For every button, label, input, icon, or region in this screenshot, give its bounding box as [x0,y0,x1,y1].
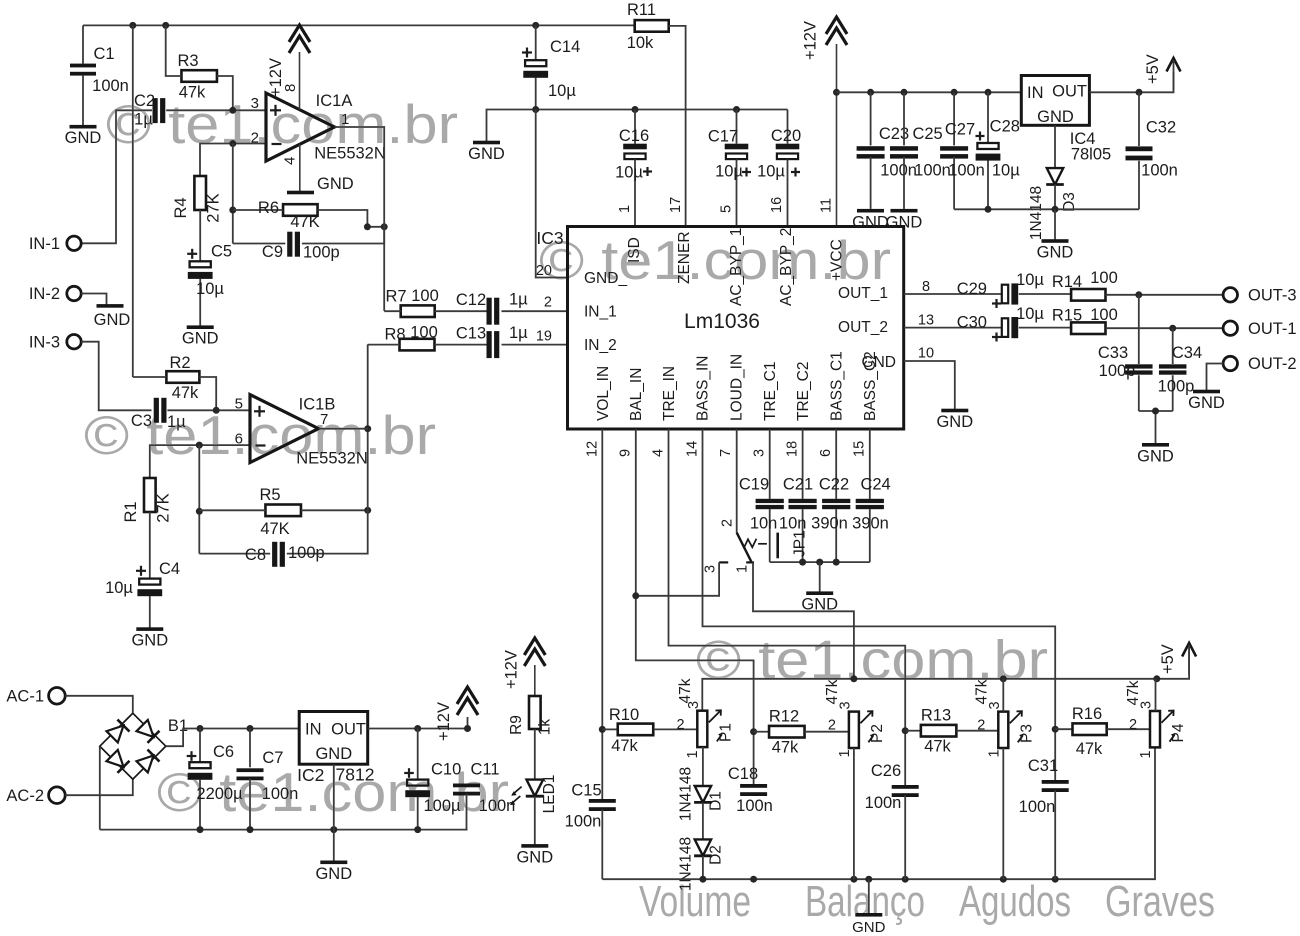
wire +5V rail [702,648,1189,711]
ground C4 [131,627,168,649]
capacitor C6 [187,729,243,830]
svg-text:R14: R14 [1052,273,1082,291]
resistor R16 [1055,705,1150,758]
junction [381,223,388,230]
resistor R15 [1019,306,1173,334]
capacitor C10 [404,729,461,830]
svg-text:3: 3 [251,95,259,112]
svg-text:+12V: +12V [435,702,453,741]
svg-text:1µ: 1µ [509,324,528,342]
svg-text:AC_BYP_2: AC_BYP_2 [778,228,795,306]
svg-text:GND: GND [1188,394,1225,412]
svg-text:100n: 100n [865,794,902,812]
svg-text:100n: 100n [262,785,299,803]
capacitor C4 [105,512,180,629]
svg-text:47K: 47K [290,213,319,231]
wire VOL_IN pin12 drop [601,429,603,801]
svg-text:47k: 47k [824,679,841,704]
svg-text:GND: GND [1037,244,1074,262]
svg-text:C15: C15 [571,782,601,800]
svg-text:C19: C19 [739,476,769,494]
junction [850,675,857,682]
svg-text:10µ: 10µ [715,163,743,181]
wire regulator ground row [954,208,1139,210]
svg-text:47K: 47K [260,520,289,538]
svg-text:C3: C3 [131,412,152,430]
junction [985,89,992,96]
svg-text:47k: 47k [1125,680,1142,705]
ground C25 [886,209,923,232]
wire pin13 out [904,327,1003,329]
svg-text:1: 1 [341,111,349,128]
junction [750,876,757,883]
junction [1136,89,1143,96]
capacitor C8 [199,344,367,566]
wire D3 to ground [1054,209,1056,241]
wire inverting node IC1B [198,445,200,553]
wire OUT-2 to ground [1207,364,1224,392]
svg-text:47k: 47k [974,679,991,704]
op-amp IC1A [251,92,386,163]
junction [364,223,371,230]
wire +12V rail to IC4 [837,91,1022,93]
junction [1135,291,1142,298]
svg-text:47k: 47k [179,84,206,102]
wire BAL_IN pin9 route [636,429,754,786]
svg-text:VOL_IN: VOL_IN [595,366,612,421]
wire IC1A pin 4 [282,144,300,192]
capacitor C32 [1126,92,1178,209]
ground C1 [65,125,102,147]
svg-text:ISD: ISD [626,237,643,263]
resistor R7 [384,287,486,317]
svg-text:6: 6 [818,449,834,457]
capacitor C2 [134,92,165,129]
svg-text:47k: 47k [1076,740,1103,758]
svg-text:100n: 100n [1019,798,1056,816]
capacitor C12 [456,291,528,325]
wire P3 top [1002,679,1004,712]
svg-text:C24: C24 [860,476,890,494]
svg-text:OUT: OUT [331,721,366,739]
wire IC2 out [368,717,468,729]
svg-text:2: 2 [828,718,836,734]
svg-text:R8: R8 [384,326,405,344]
svg-text:D2: D2 [708,845,725,865]
resistor R6 [233,199,368,231]
svg-text:47k: 47k [924,738,951,756]
wire AC-1 to bridge [65,696,132,713]
capacitor C11 [453,761,515,830]
junction [532,22,539,29]
resistor R8 [368,324,487,351]
svg-text:GND: GND [468,145,505,163]
wire IC4 out [1089,72,1173,92]
resistor R2 [133,354,216,410]
capacitor C25 [890,92,951,209]
wire C3 to pin5 [167,409,250,411]
svg-text:R9: R9 [508,715,525,735]
wire IC1A output [335,127,385,311]
svg-text:10µ: 10µ [548,82,576,100]
svg-text:C22: C22 [819,476,849,494]
junction [1052,726,1059,733]
svg-text:100n: 100n [880,162,917,180]
svg-text:3: 3 [703,565,719,573]
svg-text:10µ: 10µ [992,162,1020,180]
capacitor C31 [1019,757,1069,879]
junction [799,559,806,566]
junction [632,592,639,599]
svg-text:10n: 10n [750,515,778,533]
svg-text:100: 100 [1090,269,1118,287]
svg-text:R3: R3 [177,52,198,70]
svg-text:19: 19 [536,329,552,345]
bridge rectifier B1 [100,713,188,779]
svg-text:Lm1036: Lm1036 [684,310,760,333]
svg-text:7: 7 [718,449,734,457]
svg-text:C14: C14 [550,38,580,56]
junction [733,106,740,113]
svg-text:IN: IN [1027,84,1044,102]
svg-text:IN-2: IN-2 [29,285,60,303]
svg-text:1: 1 [837,749,853,757]
wire IC1B output [319,428,368,430]
junction [816,559,823,566]
svg-text:C30: C30 [957,314,987,332]
wire bypass rail [487,110,788,143]
jumper JP1 [703,519,809,573]
connector IN-3 [29,334,81,352]
wire P3 bottom [1002,748,1004,879]
svg-text:3: 3 [752,449,768,457]
svg-text:100n: 100n [479,797,516,815]
wire P1 bottom to D1 [702,747,704,786]
connector OUT-2 [1223,355,1296,373]
wire top rail [83,24,635,26]
svg-text:GND_: GND_ [584,270,627,287]
svg-text:1: 1 [735,565,751,573]
ground IC2 [315,861,352,883]
svg-text:C29: C29 [957,280,987,298]
IC U3 Lm1036 [536,197,934,457]
wire feedback link [367,226,384,228]
svg-text:GND: GND [182,330,219,348]
ground IN-2 [94,304,131,329]
svg-text:B1: B1 [168,717,188,735]
svg-text:47k: 47k [772,739,799,757]
wire bottom rail [602,747,1155,879]
svg-text:100: 100 [410,324,438,342]
svg-text:R10: R10 [609,706,639,724]
svg-text:GND: GND [1137,447,1174,465]
svg-text:C21: C21 [783,476,813,494]
resistor R4 [172,176,223,223]
junction [985,206,992,213]
svg-text:1: 1 [685,750,701,758]
svg-text:GND: GND [1037,108,1074,126]
svg-text:5: 5 [235,396,243,413]
svg-text:C33: C33 [1098,344,1128,362]
resistor R10 [602,706,697,755]
power +5V control [1159,643,1196,675]
svg-text:16: 16 [769,197,785,213]
capacitor C33 [1098,295,1153,411]
wire C33 C34 join [1139,411,1173,445]
junction [464,725,471,732]
resistor R3 [166,25,233,110]
svg-text:C12: C12 [456,291,486,309]
wire pin18 drop [802,429,804,499]
svg-text:P3: P3 [1019,724,1036,743]
svg-text:BASS_IN: BASS_IN [695,356,712,421]
junction [229,140,236,147]
svg-text:100n: 100n [565,813,602,831]
svg-text:100n: 100n [914,162,951,180]
wire R9 to LED [534,729,536,780]
power +12V VCC pin 11 [802,17,848,227]
svg-text:C16: C16 [619,127,649,145]
connector IN-1 [29,235,81,253]
svg-text:C32: C32 [1146,119,1176,137]
connector IN-2 [29,285,81,303]
junction [364,507,371,514]
svg-text:C4: C4 [159,560,180,578]
ground LED [516,844,553,866]
wire pin6 row [150,445,250,478]
junction [197,826,204,833]
junction [129,22,136,29]
capacitor C18 [728,765,773,815]
junction [229,107,236,114]
svg-text:R13: R13 [921,707,951,725]
capacitor C3 [131,398,186,431]
svg-text:1N4148: 1N4148 [1028,186,1045,240]
svg-text:47k: 47k [172,384,199,402]
svg-text:9: 9 [618,449,634,457]
svg-text:100: 100 [411,287,439,305]
capacitor C1 [70,25,129,126]
capacitor C24 [852,476,891,563]
diode D3 [1028,125,1078,240]
connector OUT-3 [1223,287,1296,305]
svg-text:100n: 100n [1141,162,1178,180]
svg-text:GND: GND [886,214,923,232]
svg-text:4: 4 [282,157,299,165]
resistor R1 [122,478,173,523]
capacitor C22 [811,476,850,563]
wire bridge plus to IC2 [166,729,299,747]
power +5V top [1144,54,1181,90]
svg-text:2: 2 [1129,717,1137,733]
svg-text:C11: C11 [470,761,499,779]
svg-text:27K: 27K [155,493,173,522]
svg-text:15: 15 [852,441,868,457]
svg-text:NE5532N: NE5532N [314,145,386,163]
wire IN-2 to ground [81,294,106,306]
svg-text:20: 20 [536,263,552,279]
wire pin15 drop [869,429,871,499]
svg-text:13: 13 [918,313,934,329]
svg-text:LOUD_IN: LOUD_IN [729,354,746,421]
LED LED1 [510,775,558,814]
svg-text:+12V: +12V [503,650,521,689]
svg-text:27K: 27K [205,193,223,222]
svg-text:TRE_C2: TRE_C2 [795,362,812,421]
wire LED to ground [534,796,536,846]
capacitor C14 [522,25,580,109]
svg-text:47k: 47k [677,678,694,703]
junction [901,89,908,96]
svg-text:1N4148: 1N4148 [678,767,695,821]
svg-text:GND: GND [852,919,886,936]
junction [867,89,874,96]
svg-text:R15: R15 [1052,307,1082,325]
svg-text:C9: C9 [262,243,283,261]
svg-text:100n: 100n [92,77,129,95]
ground bottom rail [852,913,886,936]
svg-text:5: 5 [719,205,735,213]
wire C2 to pin3 [166,109,266,111]
wire to OUT-3 [1139,294,1223,296]
ground IC1A [287,175,354,194]
svg-text:OUT-2: OUT-2 [1248,355,1297,373]
capacitor C7 [237,729,299,830]
junction [532,106,539,113]
svg-text:R2: R2 [169,354,190,372]
svg-text:IC2: IC2 [297,765,324,785]
ground D3 [1037,239,1074,261]
svg-text:100n: 100n [736,797,773,815]
svg-text:GND: GND [315,865,352,883]
svg-text:NE5532N: NE5532N [296,450,368,468]
junction [414,826,421,833]
svg-text:18: 18 [785,441,801,457]
junction [1000,876,1007,883]
junction [1153,675,1160,682]
wire P2 bottom [853,748,855,879]
capacitor C17 [708,110,751,227]
svg-text:GND: GND [852,214,889,232]
wire pin3 drop [769,429,771,499]
svg-text:47k: 47k [611,737,638,755]
svg-text:2: 2 [676,717,684,733]
svg-text:GND: GND [516,848,553,866]
junction [247,826,254,833]
IC U2 7812 [297,712,374,786]
capacitor C9 [233,227,384,262]
svg-text:100µ: 100µ [423,797,461,815]
svg-text:BAL_IN: BAL_IN [628,368,645,421]
junction [833,559,840,566]
svg-text:2: 2 [544,295,552,311]
junction [632,106,639,113]
wire rail to ground [868,879,870,915]
svg-text:+5V: +5V [1144,54,1162,84]
potentiometer P4 [1125,680,1187,758]
svg-text:BASS_C1: BASS_C1 [829,351,846,421]
junction [229,207,236,214]
svg-text:1: 1 [617,205,633,213]
IC U4 78l05 [1021,76,1111,164]
ground C5 [182,325,219,347]
wire JP1 pin1 to P2 [753,562,854,678]
ground C14 rail [468,141,505,163]
resistor R11 [627,1,686,227]
svg-text:100: 100 [1090,306,1118,324]
junction [1000,675,1007,682]
svg-text:1k: 1k [537,719,554,736]
svg-text:R6: R6 [258,199,279,217]
connector AC-2 [6,787,65,805]
svg-text:R4: R4 [172,197,190,218]
junction [414,725,421,732]
junction [865,876,872,883]
junction [1169,325,1176,332]
junction [1152,408,1159,415]
capacitor C29 [957,271,1045,308]
svg-text:R11: R11 [627,1,656,19]
ground OUT-2 [1188,390,1225,412]
svg-text:C1: C1 [93,45,114,63]
resistor R13 [905,707,998,756]
capacitor C34 [1158,328,1203,411]
svg-text:GND: GND [94,311,131,329]
ground tone caps [801,591,838,613]
svg-text:AC-1: AC-1 [6,688,44,706]
svg-text:8: 8 [922,279,930,295]
svg-text:1: 1 [1138,750,1154,758]
wire pin20 drop [536,110,568,278]
wire supply ground rail [100,829,468,831]
svg-text:100p: 100p [303,244,340,262]
svg-text:10µ: 10µ [1016,271,1044,289]
svg-text:IN_1: IN_1 [584,304,617,321]
wire P4 top [1155,679,1157,711]
resistor R14 [1019,269,1139,301]
capacitor C16 [615,110,652,227]
svg-text:100p: 100p [1158,378,1195,396]
svg-text:AC_BYP_1: AC_BYP_1 [728,228,745,306]
svg-text:R5: R5 [259,486,280,504]
potentiometer P2 [824,679,886,757]
svg-text:10µ: 10µ [757,163,785,181]
capacitor C21 [779,476,817,563]
svg-text:R16: R16 [1072,705,1102,723]
wire cap ground row [770,561,870,563]
svg-text:10µ: 10µ [615,164,643,182]
wire pin8 out [904,293,1003,295]
svg-text:GND: GND [315,745,352,763]
svg-text:AC-2: AC-2 [6,787,44,805]
junction [197,725,204,732]
svg-text:C20: C20 [771,127,801,145]
svg-text:+VCC: +VCC [829,239,846,281]
svg-text:IC1A: IC1A [316,92,353,110]
junction [1052,876,1059,883]
capacitor C30 [957,305,1045,342]
ground C33 C34 [1137,443,1174,465]
power +12V LED [503,638,546,696]
junction [699,876,706,883]
svg-text:C6: C6 [213,743,234,761]
svg-text:OUT-1: OUT-1 [1248,320,1297,338]
junction [213,407,220,414]
resistor R9 [508,696,554,735]
svg-text:C8: C8 [245,546,266,564]
op-amp IC1B [235,395,368,468]
junction [247,725,254,732]
